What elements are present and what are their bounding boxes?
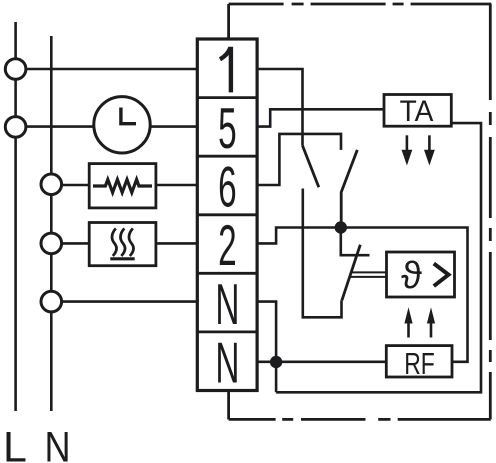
enclosure top stub [227,4,230,39]
thermostat mech link double line [350,272,387,277]
terminal circle L2 [5,117,26,138]
junction dot N net [270,356,282,368]
heater underline [110,257,134,260]
svg-text:TA: TA [400,95,435,128]
TA arrow down 2 [424,135,435,165]
RF arrow up 2 [427,307,435,337]
enclosure bottom border dash-dot [229,418,491,421]
switch blade 1 [303,146,319,188]
wire clock to terminal5 [150,125,199,128]
svg-text:ϑ: ϑ [401,255,422,297]
wire N rail [50,36,53,411]
wire terminal5 feed left [16,125,94,128]
terminal circle N2 [41,233,62,254]
terminal divider 2/N [197,272,257,275]
wire terminal1 feed [16,68,199,71]
TA arrow down 1 [402,135,413,165]
junction dot switch common [335,221,347,233]
svg-text:2: 2 [218,213,237,278]
svg-text:5: 5 [218,95,237,160]
wire terminal5 to TA [257,109,384,126]
svg-text:L: L [3,423,27,463]
heater box [89,223,156,266]
svg-text:N: N [215,271,239,336]
wire L rail [14,22,17,411]
RF arrow up 1 [404,307,412,337]
wire terminal2 feed left [51,242,89,245]
terminal label 1 [220,49,231,93]
wire terminal2 to common node and to RF right [257,228,467,362]
terminal divider 1/5 [197,96,257,99]
wire terminalN1 feed [51,300,199,303]
box RF [386,346,452,377]
enclosure right border dash-dot [489,4,492,419]
terminal divider 6/2 [197,213,257,216]
enclosure top border dash-dot [229,3,492,6]
wire terminal6 feed left [51,184,89,187]
svg-text:RF: RF [404,346,435,381]
wire terminal1 to switch top [257,69,302,146]
terminal circle N1 [41,174,62,195]
thermostat fixed contact [341,228,370,256]
switch blade 2 [341,150,357,228]
thermostat switch blade [342,245,360,301]
box TA [384,95,451,127]
svg-text:N: N [45,423,71,463]
wire resistor to terminal6 [156,184,199,187]
terminal divider N/N [197,330,257,333]
svg-text:6: 6 [218,154,237,219]
box thermostat [387,252,455,297]
wire terminalN2 to RF [257,360,386,363]
svg-text:N: N [215,330,239,395]
terminal block [197,39,257,391]
resistor box [89,164,156,208]
wire switch pivot net [303,189,342,318]
label greater-than [434,264,449,287]
terminal circle L1 [5,59,26,80]
resistor zigzag [93,180,152,193]
terminal circle N3 [41,291,62,312]
wire heater to terminal2 [156,242,199,245]
heater waves [112,228,133,256]
clock symbol [94,97,150,153]
wire terminal6 to contact stub [257,134,341,185]
enclosure bottom stub [227,391,230,420]
wire TA right to N rail return [276,123,481,392]
wire terminalN1 branch down [257,302,276,393]
terminal divider 5/6 [197,155,257,158]
